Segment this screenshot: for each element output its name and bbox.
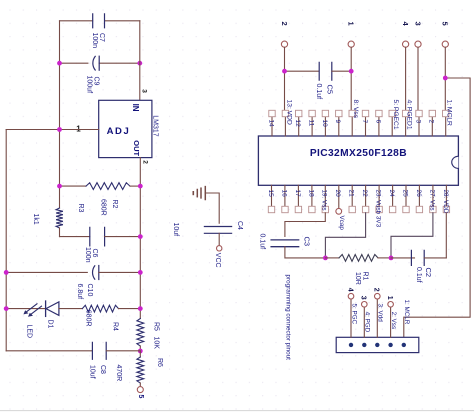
pin 21 (bottom) — [348, 185, 356, 212]
node R2 left junction — [57, 184, 62, 189]
wire terminal 3 to pin 3 — [417, 47, 419, 110]
pin 18 (bottom) — [307, 185, 315, 212]
svg-text:10K: 10K — [152, 337, 159, 350]
svg-text:5: PGC: 5: PGC — [350, 304, 357, 325]
connector pin 1:MCLR — [402, 300, 411, 348]
connector pin 2: Vss — [386, 296, 397, 347]
node C5 right junction — [349, 69, 354, 74]
svg-text:OUT: OUT — [132, 140, 141, 156]
resistor R2 680R — [60, 183, 141, 216]
wire terminal 4 to pin 4 — [405, 47, 407, 110]
svg-text:IN: IN — [131, 104, 140, 112]
pin 9 (top) — [334, 110, 342, 136]
pin 2 (top) — [428, 110, 436, 136]
svg-text:C10: C10 — [86, 284, 93, 297]
wire terminal 2 to pin 13 — [284, 47, 286, 110]
svg-text:0.1uf: 0.1uf — [415, 267, 422, 283]
pin 28 (bottom) — [442, 185, 450, 213]
svg-text:22: 22 — [361, 190, 368, 198]
node C6 junction — [138, 234, 143, 239]
svg-text:3: Vdd: 3: Vdd — [377, 304, 384, 323]
svg-text:11: 11 — [307, 120, 314, 127]
capacitor C5 0.1uf — [285, 62, 352, 99]
terminal 2 — [280, 22, 289, 48]
wire OUT vertical rail — [139, 158, 141, 319]
svg-text:1: MCLR: 1: MCLR — [403, 300, 410, 325]
svg-text:28: VDD: 28: VDD — [442, 190, 449, 214]
node C5 left junction — [282, 69, 287, 74]
svg-text:LM317: LM317 — [152, 115, 159, 137]
svg-text:0.1uf: 0.1uf — [259, 234, 266, 250]
svg-text:C9: C9 — [93, 77, 100, 86]
diode D1 LED — [6, 301, 82, 338]
svg-text:R6: R6 — [156, 358, 163, 367]
svg-text:R1: R1 — [362, 272, 369, 281]
svg-text:10uf: 10uf — [88, 365, 95, 379]
resistor R3 1k1 — [32, 204, 84, 237]
svg-text:13: VDD: 13: VDD — [285, 100, 292, 125]
svg-text:12: 12 — [294, 120, 301, 128]
node ADJ junction — [57, 127, 62, 132]
wire top-left loop — [60, 21, 140, 208]
svg-text:4: PGED1: 4: PGED1 — [406, 100, 413, 130]
pin 4 (top) — [402, 100, 412, 137]
svg-text:1: 1 — [347, 22, 356, 26]
capacitor C7 — [91, 14, 105, 48]
svg-text:C6: C6 — [91, 249, 98, 258]
terminal 5 — [137, 387, 144, 399]
pin 13 (top) — [282, 100, 292, 137]
ground symbol — [193, 187, 205, 200]
capacitor C2 0.1uf — [391, 250, 446, 282]
node B (R1/C2) — [389, 256, 394, 261]
resistor R5 10K — [137, 319, 160, 352]
wire pin19 to C3 — [285, 213, 325, 237]
terminal 5 — [441, 22, 450, 48]
svg-text:100uf: 100uf — [86, 76, 93, 94]
svg-text:7: 7 — [361, 120, 368, 124]
svg-text:C4: C4 — [236, 221, 243, 230]
svg-text:27: Vss: 27: Vss — [428, 190, 435, 211]
svg-text:3: 3 — [141, 89, 148, 93]
svg-text:470R: 470R — [115, 365, 122, 382]
svg-text:C7: C7 — [98, 33, 105, 42]
capacitor C6 100n — [60, 227, 141, 262]
pin 1 (top) — [443, 100, 453, 137]
svg-text:R4: R4 — [112, 322, 119, 331]
svg-text:0.1uf: 0.1uf — [315, 84, 322, 100]
connector pin 3: Vdd — [373, 288, 384, 347]
wire ground to C4 — [205, 193, 219, 223]
IC U2 PIC32MX250F128B — [258, 136, 458, 185]
connector pin 4: PGD — [360, 296, 371, 347]
svg-text:1: MCLR: 1: MCLR — [446, 100, 453, 127]
connector J1 — [336, 337, 419, 352]
svg-text:19: Vss: 19: Vss — [321, 190, 328, 211]
svg-text:14: 14 — [267, 120, 274, 128]
node MCLR junction — [443, 76, 448, 81]
svg-text:8: Vss: 8: Vss — [352, 100, 359, 119]
resistor R1 10R — [325, 255, 391, 285]
terminal 1 — [347, 22, 356, 48]
svg-text:1k1: 1k1 — [32, 214, 39, 225]
resistor R4 680R — [82, 305, 140, 331]
svg-text:15: 15 — [267, 190, 274, 198]
svg-text:2: Vss: 2: Vss — [390, 312, 397, 330]
pin 17 (bottom) — [294, 185, 302, 212]
svg-text:5: 5 — [137, 395, 144, 399]
svg-text:680R: 680R — [85, 310, 92, 327]
svg-text:24: 24 — [388, 190, 395, 198]
power terminal VCC — [214, 246, 222, 268]
pin 25 (bottom) — [401, 185, 409, 212]
svg-text:6: 6 — [374, 120, 381, 124]
capacitor C8 10uf — [6, 342, 140, 378]
svg-text:100n: 100n — [84, 247, 91, 263]
svg-text:23: Vusb 3V3: 23: Vusb 3V3 — [375, 190, 382, 228]
svg-text:2: 2 — [428, 120, 435, 124]
svg-text:680R: 680R — [99, 199, 106, 216]
svg-text:D1: D1 — [47, 320, 54, 329]
node C10 right junction — [138, 270, 143, 275]
wire IN feed vertical — [139, 21, 141, 136]
svg-text:2: 2 — [280, 22, 289, 26]
svg-text:R5: R5 — [153, 322, 160, 331]
pin 26 (bottom) — [415, 185, 423, 212]
capacitor C4 10uf — [172, 221, 243, 246]
pin 20 (bottom) — [334, 185, 345, 230]
pin 3 (top) — [414, 110, 422, 136]
pin 19 (bottom) — [321, 185, 329, 212]
svg-text:26: 26 — [415, 190, 422, 198]
pin 5 (top) — [389, 100, 399, 137]
svg-text:10: 10 — [321, 120, 328, 128]
svg-text:1: 1 — [386, 296, 393, 300]
pin 12 (top) — [294, 110, 302, 136]
node R5 bottom junction — [138, 349, 143, 354]
svg-text:3: 3 — [413, 22, 422, 26]
svg-text:R2: R2 — [111, 200, 118, 209]
svg-text:5: 5 — [441, 22, 450, 26]
node R4 right junction — [138, 306, 143, 311]
svg-text:2: 2 — [141, 160, 148, 164]
svg-text:2: 2 — [373, 288, 380, 292]
pin 23 (bottom) — [375, 185, 383, 227]
capacitor C9 (polarised) — [86, 56, 100, 93]
svg-text:20: 20 — [334, 190, 341, 198]
wire pin22 to node A — [325, 213, 365, 258]
resistor R6 470R — [115, 351, 163, 386]
svg-text:C5: C5 — [325, 85, 334, 95]
svg-text:4: 4 — [346, 288, 353, 292]
node LED left junction — [4, 306, 9, 311]
pin 14 (top) — [267, 110, 275, 136]
svg-text:3: 3 — [360, 296, 367, 300]
terminal 3 — [413, 22, 422, 48]
pin 24 (bottom) — [388, 185, 396, 212]
terminal 4 — [401, 22, 410, 48]
wire ADJ to left rail — [6, 130, 99, 351]
svg-text:25: 25 — [401, 190, 408, 198]
svg-text:10uf: 10uf — [172, 223, 179, 237]
node R2 right junction — [138, 184, 143, 189]
wire C9 row — [60, 62, 140, 64]
connector pin 5: PGC — [346, 288, 357, 347]
pin 10 (top) — [321, 110, 329, 136]
pin 22 (bottom) — [361, 185, 369, 212]
svg-text:6.8uf: 6.8uf — [76, 284, 83, 300]
wire pin28 to C2 — [445, 213, 447, 258]
svg-text:C3: C3 — [302, 237, 311, 247]
svg-text:programming connector pinout: programming connector pinout — [284, 275, 291, 361]
capacitor C10 6.8uf — [6, 266, 140, 300]
svg-text:3: 3 — [414, 120, 421, 124]
svg-text:C2: C2 — [424, 268, 433, 278]
regulator LM317 — [99, 100, 159, 157]
svg-text:100n: 100n — [91, 33, 98, 49]
svg-text:9: 9 — [334, 120, 341, 124]
node A (C3/R1) — [323, 256, 328, 261]
node C10 left junction — [4, 270, 9, 275]
svg-text:VCC: VCC — [214, 253, 221, 268]
pin 6 (top) — [374, 110, 382, 136]
svg-text:Vcap: Vcap — [338, 216, 345, 231]
svg-text:C8: C8 — [99, 365, 106, 374]
pin 11 (top) — [307, 110, 315, 136]
wire terminal 1 to pin 8 — [350, 47, 352, 110]
svg-text:R3: R3 — [77, 204, 84, 213]
wire terminal 5 / MCLR net — [404, 47, 470, 337]
svg-text:5: PGEC1: 5: PGEC1 — [392, 100, 399, 130]
svg-text:10R: 10R — [354, 272, 361, 285]
wire pin27 to node B — [391, 213, 433, 258]
pin 8 (top) — [349, 100, 359, 137]
pin 27 (bottom) — [428, 185, 436, 212]
svg-text:17: 17 — [294, 190, 301, 198]
capacitor C3 0.1uf — [259, 234, 326, 258]
node C9-right junction — [137, 61, 142, 66]
pin 15 (bottom) — [267, 185, 275, 212]
svg-text:16: 16 — [280, 190, 287, 198]
svg-text:4: PGD: 4: PGD — [364, 312, 371, 333]
pin 16 (bottom) — [280, 185, 288, 212]
svg-text:PIC32MX250F128B: PIC32MX250F128B — [310, 148, 407, 159]
svg-text:21: 21 — [348, 190, 355, 198]
node C9-left junction — [57, 61, 62, 66]
svg-text:18: 18 — [307, 190, 314, 198]
svg-text:LED: LED — [26, 325, 33, 339]
svg-text:ADJ: ADJ — [107, 126, 131, 137]
pin 7 (top) — [361, 110, 369, 136]
